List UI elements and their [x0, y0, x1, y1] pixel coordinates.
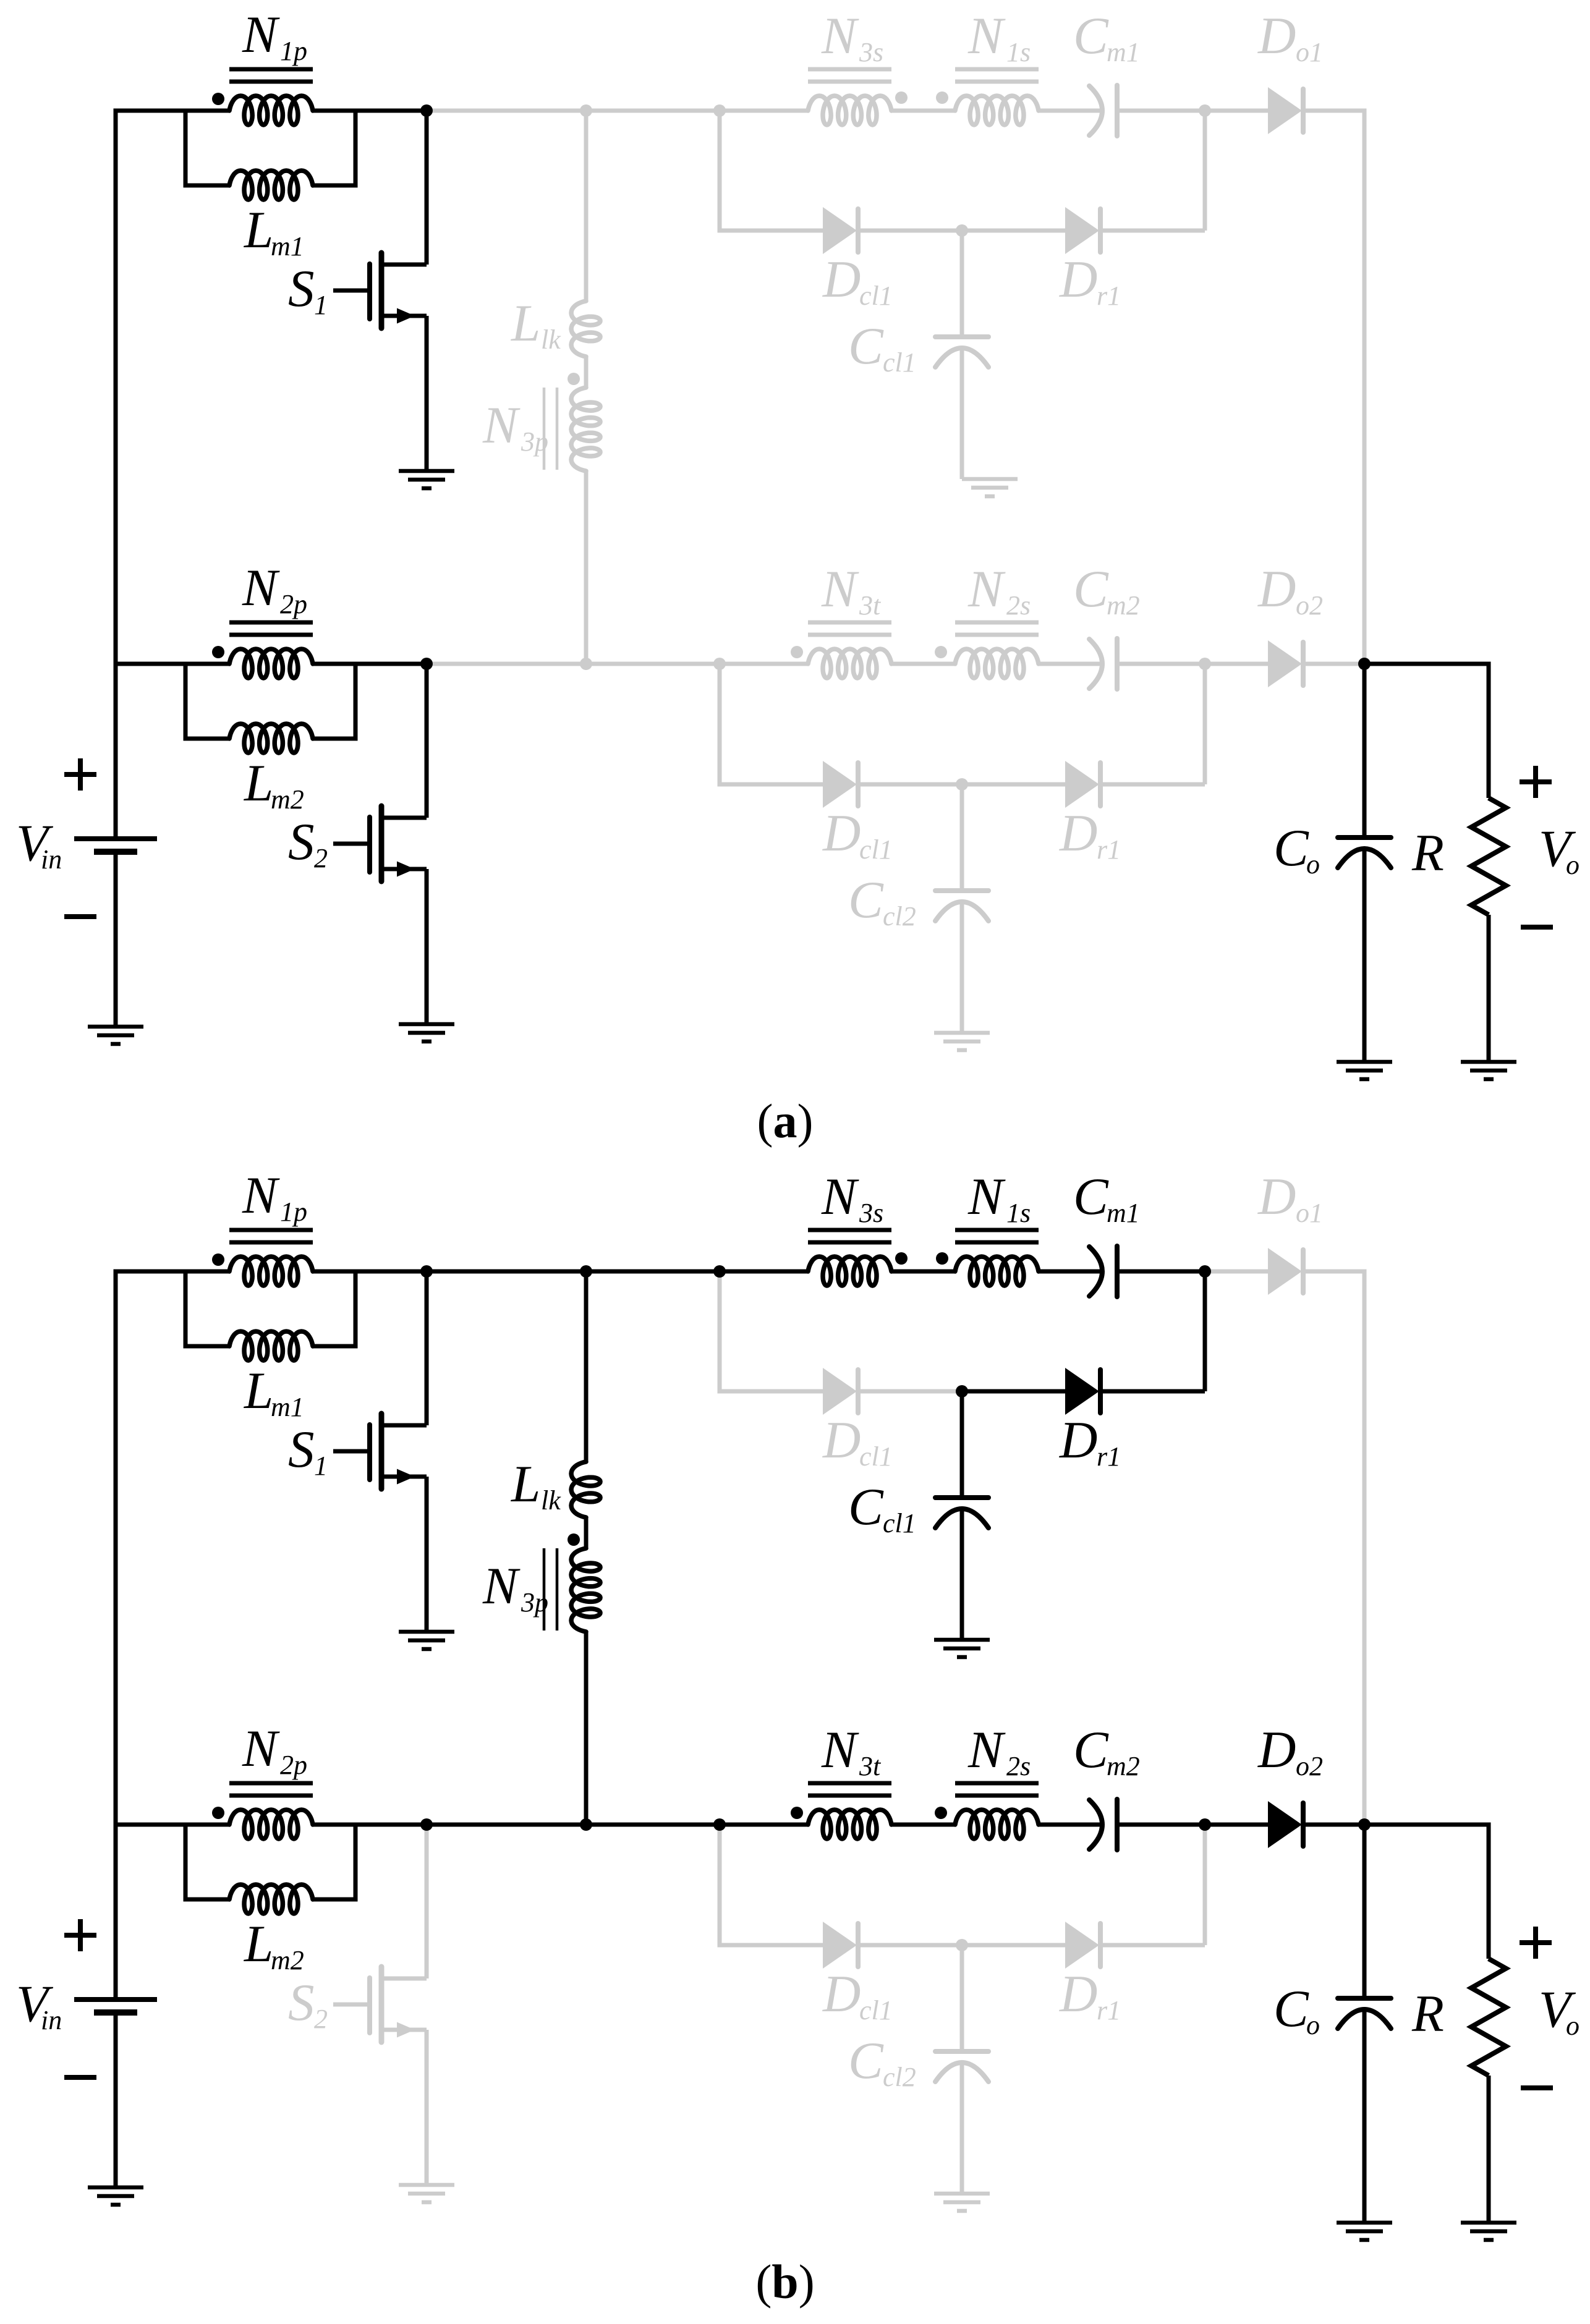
svg-text:C: C [848, 1478, 884, 1536]
svg-text:C: C [1073, 7, 1109, 65]
wire Ccl2 bottom lead (a) [960, 902, 964, 1033]
wire output top (b) [1364, 1825, 1489, 1959]
wire rail1 seg 1949-2051 (b) [1205, 1270, 1268, 1274]
svg-text:D: D [1257, 1168, 1296, 1226]
wire Dr2-out (b) [1099, 1943, 1205, 1948]
svg-text:1p: 1p [280, 36, 307, 66]
svg-text:C: C [1273, 819, 1309, 877]
wire Co top lead (b) [1363, 1825, 1367, 1998]
svg-text:cl1: cl1 [859, 281, 893, 311]
svg-text:D: D [822, 1411, 861, 1469]
svg-text:r1: r1 [1097, 834, 1121, 865]
svg-text:D: D [1059, 1965, 1097, 2023]
node rail2 x948 (a) [580, 658, 592, 670]
diode Do1 (b) [1268, 1248, 1303, 1295]
svg-text:D: D [1059, 804, 1097, 862]
svg-text:r1: r1 [1097, 1441, 1121, 1472]
wire rail1 seg 1949-2051 (a) [1205, 109, 1268, 113]
node switch2 (a) [420, 658, 433, 670]
dot N1s polarity (b) [936, 1252, 948, 1265]
wire R bottom (b) [1487, 2076, 1491, 2223]
ground Ccl2 (a) [934, 1033, 990, 1050]
svg-text:3p: 3p [521, 426, 548, 457]
diode Do2 (a) [1268, 640, 1303, 687]
diode Dr2 (b) [1065, 1922, 1100, 1969]
svg-text:1: 1 [314, 290, 328, 320]
svg-text:m2: m2 [1107, 1751, 1140, 1781]
wire Lm1 right leg (b) [313, 1271, 355, 1346]
wire central branch mid (b) [584, 1517, 589, 1548]
wire central branch bottom (b) [584, 1632, 589, 1825]
svg-text:3s: 3s [859, 1198, 883, 1228]
dot N2s polarity (b) [935, 1807, 947, 1819]
label + output (b) [1520, 1927, 1552, 1959]
wire Dcl1 branch (a) [720, 111, 823, 231]
transformer winding N2s (a) [955, 649, 1039, 678]
svg-text:lk: lk [541, 1485, 561, 1516]
wire Ccl1-Dr1 (b) [962, 1389, 1065, 1394]
dot N2p polarity (a) [212, 646, 224, 658]
wire Do2-out (b) [1302, 1823, 1364, 1827]
wire Do2-out (a) [1302, 662, 1364, 666]
svg-text:r1: r1 [1097, 1995, 1121, 2025]
inductor Llk (a) [571, 301, 600, 357]
capacitor Ccl1 (a) [935, 337, 988, 367]
ground S2 (a) [399, 1024, 454, 1041]
inductor Lm2 (a) [229, 724, 313, 753]
wire rail2 seg coil-690 (b) [313, 1823, 427, 1827]
dot N3t polarity (b) [791, 1807, 803, 1819]
diode Dr1 (a) [1065, 207, 1100, 254]
wire rail2 seg 1442-1545 (b) [891, 1823, 955, 1827]
svg-text:o: o [1566, 850, 1579, 880]
svg-text:N: N [821, 1168, 859, 1226]
wire Lm1 left leg (a) [185, 111, 229, 185]
svg-text:(a): (a) [757, 1094, 814, 1148]
resistor R (a) [1471, 798, 1506, 915]
wire Dcl2 branch (b) [720, 1825, 823, 1945]
node rail2 x948 (b) [580, 1818, 592, 1831]
svg-text:L: L [511, 1455, 540, 1513]
svg-text:N: N [242, 1720, 280, 1778]
wire Dr1-out (b) [1099, 1389, 1205, 1394]
wire Lm2 right leg (b) [313, 1825, 355, 1899]
svg-text:D: D [822, 250, 861, 308]
transformer winding N3t (b) [808, 1810, 891, 1839]
wire Cm2 junction drop (a) [1203, 664, 1207, 784]
svg-text:S: S [288, 1420, 315, 1478]
label - input (b) [64, 2075, 96, 2080]
wire Dcl2 branch (a) [720, 664, 823, 784]
wire rail2 seg 690-948 (b) [427, 1823, 586, 1827]
transistor S2 (b) [333, 1967, 427, 2042]
transformer winding N3s (b) [808, 1257, 891, 1286]
transformer winding N1p (a) [229, 96, 313, 125]
svg-text:L: L [244, 754, 273, 812]
svg-text:N: N [821, 7, 859, 65]
capacitor Cm1 (b) [1089, 1246, 1117, 1297]
svg-text:1s: 1s [1006, 1198, 1031, 1228]
wire Lm2 right leg (a) [313, 664, 355, 739]
dot N3s polarity (a) [895, 91, 908, 104]
wire Dcl1 branch (b) [720, 1271, 823, 1391]
svg-text:m1: m1 [1107, 1198, 1140, 1228]
diode Dr1 (b) [1065, 1368, 1100, 1415]
diode Dr2 (a) [1065, 761, 1100, 808]
svg-text:S: S [288, 1974, 315, 2032]
svg-text:2s: 2s [1006, 1751, 1031, 1781]
wire rail2 seg 948-1164 (a) [586, 662, 720, 666]
wire rail1 seg 1807-1949 (a) [1117, 109, 1205, 113]
dot N1p polarity (b) [212, 1253, 224, 1266]
wire rail2 seg 1680-1779 (b) [1039, 1823, 1100, 1827]
svg-text:N: N [242, 1166, 280, 1224]
wire rail2 seg left (a) [116, 662, 229, 666]
svg-text:2p: 2p [280, 589, 307, 619]
svg-text:m2: m2 [271, 1945, 304, 1975]
ground Co (b) [1337, 2223, 1392, 2240]
battery Vin (b) [74, 2000, 157, 2012]
wire rail1 seg 690-948 (b) [427, 1270, 586, 1274]
dot N3p polarity (b) [568, 1533, 580, 1546]
wire S2 drain (b) [425, 1825, 429, 1978]
svg-text:3t: 3t [859, 590, 882, 621]
svg-text:3t: 3t [859, 1751, 882, 1781]
wire rail1 seg 1442-1545 (a) [891, 109, 955, 113]
wire rail1 seg 1164-1307 (a) [720, 109, 808, 113]
wire Co bottom lead (a) [1363, 851, 1367, 1062]
dot N1s polarity (a) [936, 91, 948, 104]
wire Ccl1 bottom lead (b) [960, 1509, 964, 1640]
svg-text:N: N [242, 6, 280, 64]
transistor S2 (a) [333, 806, 427, 881]
svg-text:C: C [1073, 560, 1109, 618]
svg-text:r1: r1 [1097, 281, 1121, 311]
dot N2s polarity (a) [935, 646, 947, 658]
inductor Llk (b) [571, 1462, 600, 1517]
node rail1 x948 (a) [580, 104, 592, 117]
node rail2 x1164 (a) [713, 658, 726, 670]
wire rail2 seg 1949-2051 (b) [1205, 1823, 1268, 1827]
ground S1 (b) [399, 1632, 454, 1649]
svg-text:2: 2 [314, 2004, 328, 2034]
svg-text:R: R [1411, 1985, 1444, 2043]
wire Ccl1-Dr1 (a) [962, 229, 1065, 233]
wire rail1 seg 948-1164 (b) [586, 1270, 720, 1274]
ground Ccl1 (a) [962, 479, 1018, 496]
label - output (b) [1521, 2085, 1553, 2090]
wire Lm1 right leg (a) [313, 111, 355, 185]
wire rail1 seg 1807-1949 (b) [1117, 1270, 1205, 1274]
wire rail1 seg 1680-1779 (a) [1039, 109, 1100, 113]
wire output top (a) [1364, 664, 1489, 798]
diode Dcl1 (a) [823, 207, 858, 254]
wire rail1 seg coil-690 (b) [313, 1270, 427, 1274]
wire rail1 seg 1164-1307 (b) [720, 1270, 808, 1274]
core N3p (b) [544, 1548, 557, 1631]
wire Cm1 junction drop (a) [1203, 111, 1207, 231]
wire central branch top (b) [584, 1271, 589, 1462]
inductor Lm1 (a) [229, 171, 313, 200]
svg-text:L: L [244, 1362, 273, 1420]
wire Co top lead (a) [1363, 664, 1367, 838]
wire Co bottom lead (b) [1363, 2012, 1367, 2223]
svg-text:o: o [1566, 2011, 1579, 2041]
node Ccl2 junction (a) [956, 778, 968, 791]
wire Ccl1 top lead (b) [960, 1391, 964, 1495]
wire right bus (b) [1302, 1271, 1364, 1825]
svg-text:N: N [821, 560, 859, 618]
wire rail2 seg 948-1164 (b) [586, 1823, 720, 1827]
capacitor Cm1 (a) [1089, 85, 1117, 136]
svg-text:N: N [821, 1721, 859, 1779]
dot N1p polarity (a) [212, 93, 224, 105]
svg-text:o2: o2 [1296, 1751, 1323, 1781]
node output (b) [1358, 1818, 1371, 1831]
transformer winding N1s (b) [955, 1257, 1039, 1286]
battery Vin (a) [74, 839, 157, 852]
wire left bus (b) [116, 1271, 229, 2000]
node Cm1 junction (a) [1199, 104, 1211, 117]
svg-text:m1: m1 [271, 231, 304, 261]
svg-text:N: N [967, 1168, 1006, 1226]
capacitor Co (b) [1338, 1998, 1391, 2029]
transformer winding N3s (a) [808, 96, 891, 125]
inductor Lm1 (b) [229, 1331, 313, 1360]
capacitor Ccl2 (a) [935, 891, 988, 921]
wire central branch mid (a) [584, 357, 589, 388]
ground Ccl2 (b) [934, 2194, 990, 2211]
label - output (a) [1521, 925, 1553, 930]
ground Vin (b) [88, 2187, 143, 2205]
wire Vin bottom (b) [114, 2012, 118, 2187]
winding N3p (a) [571, 388, 600, 471]
wire rail1 seg 1442-1545 (b) [891, 1270, 955, 1274]
wire S2 source (b) [425, 2030, 429, 2185]
svg-text:3p: 3p [521, 1587, 548, 1618]
node switch2 (b) [420, 1818, 433, 1831]
svg-text:cl2: cl2 [883, 901, 916, 931]
ground Ccl1 (b) [934, 1640, 990, 1657]
winding N3p (b) [571, 1548, 600, 1632]
capacitor Cm2 (b) [1089, 1799, 1117, 1850]
svg-text:1s: 1s [1006, 37, 1031, 67]
svg-text:N: N [967, 1721, 1006, 1779]
svg-text:C: C [1273, 1980, 1309, 2038]
ground Co (a) [1337, 1062, 1392, 1079]
wire rail2 seg 690-948 (a) [427, 662, 586, 666]
wire Dr1-out (a) [1099, 229, 1205, 233]
wire rail2 seg coil-690 (a) [313, 662, 427, 666]
wire rail2 seg 1807-1949 (b) [1117, 1823, 1205, 1827]
svg-text:o: o [1306, 2010, 1320, 2040]
svg-text:2p: 2p [280, 1750, 307, 1780]
wire Ccl2 bottom lead (b) [960, 2063, 964, 2194]
node output (a) [1358, 658, 1371, 670]
wire R bottom (a) [1487, 915, 1491, 1062]
wire rail2 seg 1680-1779 (a) [1039, 662, 1100, 666]
wire rail2 seg 1164-1307 (b) [720, 1823, 808, 1827]
wire Ccl2-Dr2 (b) [962, 1943, 1065, 1948]
svg-text:o1: o1 [1296, 37, 1323, 67]
svg-text:D: D [1257, 560, 1296, 618]
svg-text:lk: lk [541, 324, 561, 355]
node Ccl2 junction (b) [956, 1939, 968, 1951]
svg-text:in: in [41, 2005, 62, 2035]
diode Do1 (a) [1268, 87, 1303, 134]
wire S1 source (b) [425, 1477, 429, 1632]
node Cm2 junction (a) [1199, 658, 1211, 670]
node rail1 x948 (b) [580, 1265, 592, 1278]
svg-text:D: D [1059, 250, 1097, 308]
wire Lm1 left leg (b) [185, 1271, 229, 1346]
resistor R (b) [1471, 1959, 1506, 2076]
svg-text:D: D [822, 1965, 861, 2023]
transformer winding N3t (a) [808, 649, 891, 678]
svg-text:3s: 3s [859, 37, 883, 67]
wire S1 source (a) [425, 316, 429, 471]
svg-text:2: 2 [314, 843, 328, 873]
svg-text:C: C [1073, 1721, 1109, 1779]
wire rail1 seg 1680-1779 (b) [1039, 1270, 1100, 1274]
inductor Lm2 (b) [229, 1885, 313, 1914]
svg-text:m1: m1 [1107, 37, 1140, 67]
wire Ccl1 bottom lead (a) [960, 348, 964, 479]
ground R (a) [1461, 1062, 1516, 1079]
svg-text:D: D [822, 804, 861, 862]
wire S2 drain (a) [425, 664, 429, 818]
svg-text:N: N [482, 1557, 521, 1615]
dot N3p polarity (a) [568, 373, 580, 385]
wire rail2 seg 1807-1949 (a) [1117, 662, 1205, 666]
dot N3s polarity (b) [895, 1252, 908, 1265]
label + input (a) [64, 758, 96, 791]
transformer winding N2s (b) [955, 1810, 1039, 1839]
svg-text:D: D [1257, 7, 1296, 65]
wire Ccl2 top lead (b) [960, 1945, 964, 2049]
wire central branch top (a) [584, 111, 589, 301]
svg-text:D: D [1059, 1411, 1097, 1469]
label + output (a) [1520, 766, 1552, 798]
svg-text:N: N [967, 560, 1006, 618]
wire rail2 seg 1164-1307 (a) [720, 662, 808, 666]
wire rail1 seg 690-948 (a) [427, 109, 586, 113]
svg-text:N: N [482, 396, 521, 454]
svg-text:1p: 1p [280, 1197, 307, 1227]
wire Ccl2 top lead (a) [960, 784, 964, 888]
svg-text:L: L [244, 1915, 273, 1973]
capacitor Ccl2 (b) [935, 2051, 988, 2082]
svg-text:cl1: cl1 [859, 1441, 893, 1472]
transformer winding N1p (b) [229, 1257, 313, 1286]
wire left bus (a) [116, 111, 229, 839]
svg-text:2s: 2s [1006, 590, 1031, 621]
ground S1 (a) [399, 471, 454, 488]
node Cm2 junction (b) [1199, 1818, 1211, 1831]
wire Lm2 left leg (b) [185, 1825, 229, 1899]
svg-text:cl1: cl1 [883, 1508, 916, 1538]
ground Vin (a) [88, 1027, 143, 1044]
svg-text:m1: m1 [271, 1392, 304, 1422]
svg-text:L: L [244, 201, 273, 259]
diode Dcl2 (a) [823, 761, 858, 808]
wire rail1 seg coil-690 (a) [313, 109, 427, 113]
svg-text:(b): (b) [755, 2255, 814, 2309]
svg-text:1: 1 [314, 1451, 328, 1481]
wire Ccl1 top lead (a) [960, 231, 964, 334]
wire rail2 seg left (b) [116, 1823, 229, 1827]
svg-text:C: C [1073, 1168, 1109, 1226]
svg-text:cl2: cl2 [883, 2062, 916, 2092]
transistor S1 (a) [333, 253, 427, 328]
svg-text:in: in [41, 844, 62, 875]
svg-text:C: C [848, 317, 884, 375]
wire Dcl1-Ccl1 (b) [858, 1389, 962, 1394]
wire Vin bottom (a) [114, 852, 118, 1027]
dot N3t polarity (a) [791, 646, 803, 658]
svg-text:o: o [1306, 849, 1320, 880]
diode Dcl1 (b) [823, 1368, 858, 1415]
transformer winding N2p (b) [229, 1810, 313, 1839]
wire S2 source (a) [425, 869, 429, 1024]
wire rail2 seg 1442-1545 (a) [891, 662, 955, 666]
wire right bus (a) [1302, 111, 1364, 664]
node rail2 x1164 (b) [713, 1818, 726, 1831]
capacitor Cm2 (a) [1089, 638, 1117, 689]
svg-text:L: L [511, 294, 540, 352]
node Ccl1 junction (b) [956, 1385, 968, 1397]
diode Dcl2 (b) [823, 1922, 858, 1969]
svg-text:N: N [967, 7, 1006, 65]
svg-text:C: C [848, 2032, 884, 2090]
wire S1 drain (b) [425, 1271, 429, 1425]
svg-text:m2: m2 [271, 784, 304, 815]
diode Do2 (b) [1268, 1801, 1303, 1848]
svg-text:cl1: cl1 [859, 1995, 893, 2025]
wire S1 drain (a) [425, 111, 429, 265]
svg-text:R: R [1411, 824, 1444, 882]
svg-text:o1: o1 [1296, 1198, 1323, 1228]
wire Dr2-out (a) [1099, 782, 1205, 787]
svg-text:cl1: cl1 [883, 347, 916, 378]
wire Dcl1-Ccl1 (a) [858, 229, 962, 233]
label - input (a) [64, 914, 96, 919]
node switch1 (a) [420, 104, 433, 117]
svg-text:m2: m2 [1107, 590, 1140, 621]
dot N2p polarity (b) [212, 1807, 224, 1819]
transformer winding N2p (a) [229, 649, 313, 678]
wire rail1 seg 948-1164 (a) [586, 109, 720, 113]
svg-text:o2: o2 [1296, 590, 1323, 621]
transistor S1 (b) [333, 1414, 427, 1489]
svg-text:S: S [288, 260, 315, 318]
label + input (b) [64, 1919, 96, 1951]
svg-text:cl1: cl1 [859, 834, 893, 865]
ground R (b) [1461, 2223, 1516, 2240]
wire rail2 seg 1949-2051 (a) [1205, 662, 1268, 666]
wire central branch bottom (a) [584, 471, 589, 664]
transformer winding N1s (a) [955, 96, 1039, 125]
node switch1 (b) [420, 1265, 433, 1278]
wire Ccl2-Dr2 (a) [962, 782, 1065, 787]
wire Cm1 junction drop (b) [1203, 1271, 1207, 1391]
node Ccl1 junction (a) [956, 224, 968, 237]
svg-text:D: D [1257, 1721, 1296, 1779]
wire Dcl2-Ccl2 (b) [858, 1943, 962, 1948]
svg-text:C: C [848, 871, 884, 929]
svg-text:N: N [242, 559, 280, 617]
node rail1 x1164 (b) [713, 1265, 726, 1278]
